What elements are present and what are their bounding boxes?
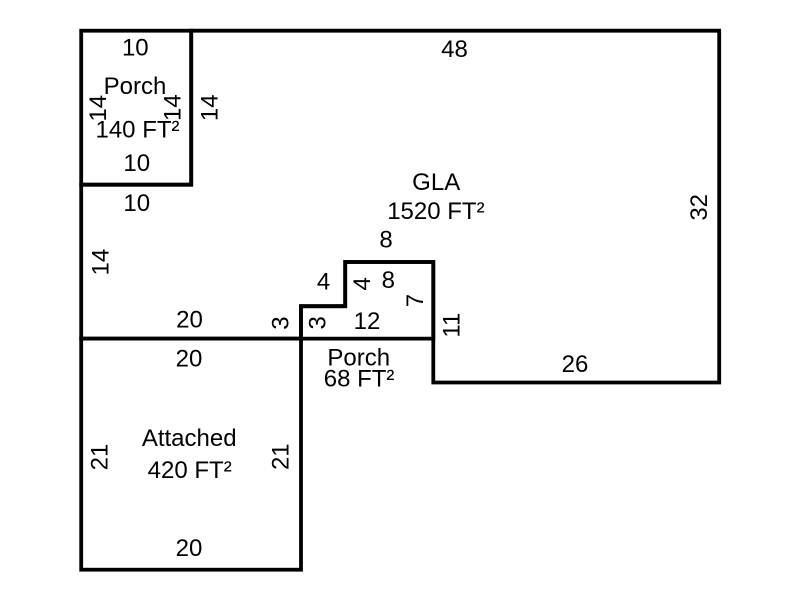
- svg-text:7: 7: [402, 294, 429, 307]
- svg-text:10: 10: [123, 150, 150, 177]
- svg-text:14: 14: [197, 94, 224, 121]
- svg-text:Attached: Attached: [142, 425, 237, 452]
- svg-text:32: 32: [686, 194, 713, 221]
- svg-text:14: 14: [88, 249, 115, 276]
- svg-text:8: 8: [379, 226, 392, 253]
- svg-text:Porch: Porch: [104, 73, 167, 100]
- svg-text:420 FT²: 420 FT²: [148, 457, 232, 484]
- svg-text:26: 26: [562, 351, 589, 378]
- svg-text:20: 20: [176, 535, 203, 562]
- svg-text:21: 21: [86, 444, 113, 471]
- svg-text:20: 20: [176, 345, 203, 372]
- svg-text:GLA: GLA: [412, 169, 460, 196]
- svg-text:4: 4: [349, 277, 376, 290]
- svg-text:48: 48: [441, 36, 468, 63]
- svg-text:8: 8: [382, 267, 395, 294]
- svg-text:21: 21: [268, 443, 295, 470]
- svg-text:1520 FT²: 1520 FT²: [387, 198, 484, 225]
- svg-text:68 FT²: 68 FT²: [324, 366, 395, 393]
- svg-text:11: 11: [439, 313, 466, 338]
- svg-text:10: 10: [123, 190, 150, 217]
- svg-text:4: 4: [317, 268, 330, 295]
- svg-text:14: 14: [85, 95, 112, 122]
- svg-text:3: 3: [305, 316, 332, 329]
- svg-text:10: 10: [122, 35, 149, 62]
- svg-text:3: 3: [267, 316, 294, 329]
- svg-text:14: 14: [159, 94, 186, 121]
- svg-text:12: 12: [354, 308, 381, 335]
- svg-text:20: 20: [176, 306, 203, 333]
